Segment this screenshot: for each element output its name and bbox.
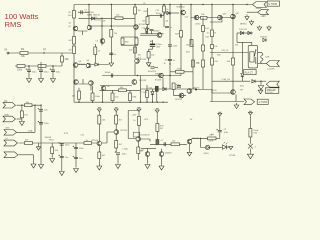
- label R10b: [129, 50, 133, 52]
- svg-text:S.TRIM: S.TRIM: [268, 2, 277, 6]
- resistor R26 feedback: [176, 70, 185, 73]
- svg-text:100u: 100u: [224, 132, 228, 134]
- label C12: [173, 46, 179, 48]
- label C21: [65, 145, 70, 147]
- svg-text:100u: 100u: [32, 72, 38, 74]
- node rail x135: [134, 4, 135, 5]
- svg-text:100u: 100u: [122, 154, 128, 156]
- LED D16b: [222, 142, 227, 149]
- wire q20 emit: [137, 141, 139, 147]
- resistor R6: [73, 37, 76, 45]
- svg-text:100pF: 100pF: [105, 72, 112, 74]
- svg-text:TP: TP: [43, 49, 46, 52]
- label y8: [190, 119, 193, 121]
- wire y26 bias: [92, 25, 136, 27]
- svg-text:100k: 100k: [17, 70, 23, 72]
- ground x111: [109, 60, 114, 67]
- wire vbe top: [121, 36, 138, 38]
- node bus103 x140.5: [140, 102, 141, 103]
- wire q18 emit: [98, 146, 100, 152]
- resistor R33 4k7: [98, 152, 101, 159]
- node bus103 x79: [78, 102, 79, 103]
- wire y22 stub: [210, 20, 222, 22]
- wire y17.5 r2: [191, 17, 233, 19]
- capacitor C10 100u: [149, 65, 154, 68]
- ground top right lower: [258, 89, 263, 94]
- wire chain g2: [219, 133, 221, 139]
- label LOA: [222, 78, 231, 81]
- capacitor C15: [177, 86, 181, 87]
- wire x102 drop: [101, 18, 103, 45]
- connector -42V: [258, 10, 269, 15]
- label C10: [148, 71, 157, 73]
- wire C3 to ground: [52, 72, 54, 78]
- ground x62: [59, 170, 64, 175]
- label y7: [144, 119, 149, 121]
- label R31: [102, 120, 106, 122]
- resistor R30: [146, 91, 149, 98]
- label Q14b: [107, 86, 111, 88]
- label Q1: [68, 26, 72, 28]
- node rail x191: [190, 4, 191, 5]
- resistor R20 10k: [202, 60, 205, 67]
- svg-text:100R: 100R: [176, 87, 181, 89]
- transistor Q7b: [135, 59, 140, 64]
- transistor Q15 TIP3055: [179, 93, 184, 98]
- wire q20 down: [137, 154, 139, 161]
- resistor R23: [211, 45, 214, 49]
- wire zener low: [241, 77, 243, 82]
- label y1: [141, 92, 148, 94]
- wire q9 emitter: [162, 78, 164, 89]
- label R40: [172, 141, 175, 143]
- wire x92.5 stub: [92, 86, 94, 102]
- svg-text:TIP: TIP: [107, 86, 111, 88]
- label C19: [44, 110, 48, 112]
- resistor R17 10k: [201, 16, 208, 19]
- wire x76 chain: [75, 143, 77, 167]
- svg-text:OR_2k: OR_2k: [222, 50, 230, 52]
- wire x233 drop: [232, 5, 234, 95]
- diode D14: [252, 80, 255, 83]
- box title block: [267, 1, 279, 6]
- label R27: [120, 87, 124, 89]
- resistor R35: [115, 141, 118, 149]
- wire x135 drop: [134, 5, 136, 38]
- label R24: [214, 61, 218, 63]
- label LED: [204, 153, 210, 155]
- wire chain b2: [115, 124, 117, 130]
- wire q22 gnd: [147, 156, 149, 163]
- capacitor C14 100p: [111, 74, 112, 78]
- resistor R16c: [190, 40, 193, 47]
- svg-text:R28: R28: [217, 55, 220, 57]
- label R8: [114, 33, 118, 35]
- label y2: [29, 130, 33, 133]
- wire x113 seg: [112, 90, 114, 93]
- capacitor C11b: [148, 28, 153, 31]
- wire y33.8 link: [141, 33, 164, 35]
- label F1: [255, 147, 257, 149]
- label L2: [253, 130, 258, 132]
- resistor R25: [232, 58, 235, 65]
- label R18: [205, 28, 209, 30]
- wire q21 emit: [189, 144, 191, 151]
- resistor R18: [202, 26, 205, 32]
- label y15: [235, 45, 238, 47]
- label C13: [173, 60, 176, 62]
- wire coil top: [258, 52, 262, 63]
- capacitor C16 100u: [115, 151, 120, 154]
- svg-text:100u: 100u: [56, 72, 62, 74]
- node bus1: [137, 75, 138, 76]
- resistor R27 10k: [119, 89, 127, 92]
- resistor R46 240R: [208, 137, 217, 140]
- svg-text:100n/400V: 100n/400V: [140, 135, 150, 137]
- node rail x164: [163, 4, 164, 5]
- label x1: [166, 21, 170, 23]
- svg-text:BC556: BC556: [95, 19, 102, 21]
- ground r43: [19, 120, 24, 126]
- ground supply 2: [249, 20, 253, 25]
- diode D6: [145, 29, 148, 32]
- label y4: [64, 133, 69, 135]
- ground cn5: [31, 163, 36, 169]
- svg-text:MJ350: MJ350: [153, 31, 160, 33]
- resistor R4 47k: [38, 65, 46, 68]
- capacitor C21 100u: [58, 142, 63, 145]
- connector trim: [244, 99, 255, 105]
- wire y144.3 row: [150, 143, 187, 145]
- label R5: [68, 12, 72, 14]
- wire cn5 row: [19, 154, 34, 156]
- label x10: [164, 63, 166, 65]
- resistor R8 15k: [110, 30, 113, 38]
- svg-text:1k: 1k: [214, 33, 216, 35]
- label R11: [125, 42, 129, 44]
- svg-text:LYT08L: LYT08L: [229, 155, 235, 157]
- svg-text:100n: 100n: [165, 60, 169, 62]
- label C11: [170, 27, 172, 29]
- wire x135 mid: [134, 37, 136, 76]
- transistor Q13: [231, 14, 236, 19]
- label R32: [86, 140, 89, 142]
- resistor R37: [137, 147, 140, 154]
- label x3: [196, 24, 202, 26]
- flag V+ h: [248, 111, 252, 117]
- wire c10 link: [155, 67, 159, 69]
- transistor Q4 BC556: [86, 63, 91, 68]
- label TIP 3055: [85, 12, 95, 14]
- svg-text:220R: 220R: [177, 68, 182, 70]
- wire chain g: [219, 118, 221, 130]
- wire x79 stub: [78, 88, 80, 102]
- svg-text:Q1: Q1: [69, 23, 72, 25]
- label R28a: [72, 96, 76, 98]
- capacitor C13: [168, 59, 172, 60]
- node bus103 x152.5: [152, 102, 153, 103]
- node rail x233: [232, 4, 233, 5]
- resistor R10b: [134, 47, 137, 53]
- wire x181 drop: [180, 5, 182, 76]
- label R30c: [176, 87, 181, 89]
- wire C1 drop: [28, 66, 30, 70]
- connector CN5: [4, 152, 18, 158]
- diode D1 1N4148: [91, 17, 94, 20]
- wire -42V feed: [247, 11, 258, 13]
- svg-text:240R: 240R: [209, 141, 214, 143]
- box -2 TRIM: [257, 99, 268, 104]
- label 100n 400V: [140, 135, 150, 137]
- label L2b: [253, 133, 258, 135]
- label Q7: [139, 24, 146, 26]
- label R26: [177, 68, 182, 70]
- diode D7 1N4148: [167, 11, 170, 14]
- label Q9b: [153, 31, 160, 33]
- svg-text:100u/25V: 100u/25V: [148, 71, 157, 73]
- label R14b: [144, 11, 149, 13]
- capacitor C22 10u: [58, 155, 63, 158]
- resistor R44 4k7: [25, 142, 33, 145]
- label Q10: [177, 7, 186, 9]
- transistor Q7: [134, 25, 139, 30]
- resistor R30b 100R: [172, 83, 175, 90]
- diode D11: [248, 31, 251, 34]
- resistor R32 1k: [84, 142, 92, 145]
- wire d8 stubs: [152, 89, 154, 102]
- node B: [28, 65, 29, 66]
- wire y90 seg: [100, 89, 141, 91]
- wire diode row y33: [237, 32, 253, 34]
- wire q18 gnd: [98, 159, 100, 165]
- svg-text:-2 TRIM: -2 TRIM: [258, 101, 267, 104]
- label y11: [103, 21, 106, 23]
- transistor Q14b: [101, 86, 106, 91]
- wire bus y75.5: [102, 75, 181, 77]
- transistor Q20: [136, 137, 141, 142]
- label x8: [214, 46, 217, 48]
- label R5b: [68, 15, 72, 17]
- node cn1c: [40, 105, 41, 106]
- svg-text:(+)SPK: (+)SPK: [268, 69, 276, 71]
- wire led branch: [201, 138, 206, 147]
- node rail x212: [211, 4, 212, 5]
- wire x89 drop: [88, 5, 90, 26]
- transistor Q5 BC546: [74, 80, 79, 85]
- label C24: [79, 158, 83, 160]
- svg-text:BC: BC: [140, 151, 143, 153]
- wire d6 stubs: [147, 27, 152, 34]
- svg-text:RMS: RMS: [5, 20, 22, 29]
- svg-text:CN3: CN3: [5, 128, 10, 130]
- resistor R6b: [73, 46, 76, 54]
- resistor R3 100k: [17, 65, 25, 68]
- svg-text:BC546: BC546: [155, 80, 162, 82]
- wire chain a: [98, 113, 100, 115]
- wire chain b3: [115, 148, 117, 152]
- wire x62 chain: [61, 143, 63, 170]
- transistor Q3 BC546: [73, 63, 78, 68]
- resistor R1 10k: [20, 47, 28, 55]
- svg-text:MJ2955: MJ2955: [187, 45, 194, 47]
- resistor R2 10k: [61, 56, 70, 62]
- capacitor C22 100n: [160, 14, 161, 18]
- power flag 1: [257, 27, 261, 30]
- node q21 coll: [200, 138, 201, 139]
- label R38b: [160, 128, 164, 130]
- svg-text:C31: C31: [81, 134, 84, 136]
- label CN2: [4, 115, 9, 117]
- relay RLA box: [248, 45, 257, 68]
- wire y89 out: [141, 88, 197, 90]
- label x11: [223, 14, 228, 16]
- wire r43 chain: [21, 105, 23, 111]
- capacitor C23 100u: [73, 146, 78, 149]
- resistor R38 4k7: [156, 124, 159, 132]
- wire x131 seg: [129, 90, 131, 93]
- label R20: [196, 63, 200, 65]
- label Q18: [92, 140, 99, 142]
- node y26 x102: [101, 25, 102, 26]
- flag V+ a: [97, 108, 101, 114]
- transistor Q12: [218, 15, 223, 20]
- label R17: [201, 14, 205, 16]
- wire vbe bottom: [121, 44, 138, 46]
- node x170b: [169, 63, 170, 64]
- transistor Q9 BC546: [159, 73, 164, 78]
- label R16: [166, 9, 169, 11]
- transistor Q9b MJE350: [157, 33, 162, 38]
- svg-text:BC546: BC546: [139, 24, 146, 26]
- wire bus y103: [74, 101, 168, 103]
- node bus103 x102.5: [102, 102, 103, 103]
- node bias1: [111, 25, 112, 26]
- svg-text:RLA-ZT: RLA-ZT: [245, 72, 254, 75]
- node rail x203: [202, 4, 203, 5]
- resistor R10 10k: [134, 7, 137, 14]
- wire y139 stub: [140, 139, 150, 142]
- wire x95 drop: [94, 44, 96, 63]
- label y3: [45, 137, 52, 139]
- wire supply arrows top: [260, 26, 270, 28]
- wire loop x35: [17, 105, 36, 132]
- svg-text:10k: 10k: [196, 63, 199, 65]
- ground led: [229, 146, 233, 149]
- wire out right: [196, 90, 231, 94]
- inductor L1: [261, 53, 263, 63]
- resistor R28b 100n: [91, 93, 94, 101]
- label R14: [142, 21, 146, 23]
- ground x52: [50, 157, 55, 162]
- wire fuse low: [249, 149, 251, 153]
- wire x147.5 chain: [147, 8, 149, 34]
- resistor R42 10k: [25, 104, 33, 107]
- label Q19: [121, 130, 128, 132]
- wire y12.2 c7: [78, 11, 89, 13]
- label R36: [133, 120, 136, 122]
- svg-text:10R: 10R: [265, 57, 269, 59]
- wire q18 base: [70, 142, 97, 144]
- node rail x247: [246, 4, 247, 5]
- ground relay area: [258, 84, 263, 89]
- svg-text:22k: 22k: [103, 21, 106, 23]
- resistor R45 10k: [51, 147, 54, 154]
- svg-text:+42V: +42V: [144, 119, 149, 121]
- node A: [43, 52, 44, 53]
- label Q8: [96, 41, 99, 43]
- label x4: [206, 37, 211, 39]
- label R6b: [69, 50, 73, 52]
- wire x41 chain: [40, 105, 42, 163]
- label C16: [122, 154, 128, 156]
- label C18e: [211, 134, 215, 136]
- resistor R22 1k: [211, 30, 214, 37]
- resistor R31 dark: [155, 86, 158, 91]
- wire y18.3 link: [79, 17, 136, 19]
- resistor R12: [135, 38, 138, 45]
- ground C3: [51, 77, 56, 83]
- transistor Q17 out: [231, 90, 236, 95]
- wire y64 link2: [91, 64, 109, 66]
- diode D16: [163, 87, 166, 90]
- capacitor C6 1n: [109, 53, 113, 54]
- label y13: [187, 45, 194, 47]
- label Q23: [165, 153, 173, 155]
- capacitor C17: [164, 142, 165, 146]
- label R30b: [176, 85, 181, 87]
- label CN3: [5, 128, 10, 130]
- wire mirror link: [79, 79, 92, 91]
- wire +42V top rail: [74, 4, 252, 6]
- capacitor C1 100u: [26, 68, 31, 71]
- label C2: [44, 72, 50, 74]
- resistor R31: [98, 115, 101, 124]
- resistor R28a: [78, 91, 81, 99]
- label R9 22k: [116, 15, 120, 17]
- ground q21: [187, 151, 192, 156]
- wire chain d2: [156, 132, 158, 140]
- svg-text:C 1u0F: C 1u0F: [141, 92, 148, 94]
- flag V+ b: [114, 108, 118, 114]
- node bus103 x130: [129, 102, 130, 103]
- svg-text:BC546: BC546: [92, 140, 99, 142]
- label 10k R1: [21, 55, 26, 58]
- ground x76: [74, 168, 79, 173]
- resistor R39 dark: [156, 140, 159, 145]
- wire led gnd: [227, 146, 230, 148]
- label R44: [25, 139, 29, 141]
- box q20 corner: [133, 132, 140, 137]
- svg-text:10k: 10k: [214, 46, 217, 48]
- wire chain c2: [138, 125, 140, 136]
- input terminal: [7, 52, 9, 54]
- capacitor C18b 100u: [216, 129, 221, 132]
- wire x170 main drop: [169, 5, 171, 90]
- transistor Q8: [100, 39, 105, 44]
- node bus103 x112.5: [112, 102, 113, 103]
- resistor R15 10k: [147, 52, 150, 59]
- transistor Q18 BC546: [97, 141, 102, 146]
- label C22b: [156, 13, 161, 15]
- wire x111 drop: [110, 5, 112, 60]
- svg-text:10k: 10k: [172, 141, 175, 143]
- label Q4: [87, 60, 91, 62]
- svg-text:BC556: BC556: [121, 130, 128, 132]
- wire R2 to lower: [61, 62, 63, 66]
- transistor Q6: [89, 81, 94, 86]
- node y18 x102: [101, 18, 102, 19]
- label Q21: [193, 138, 200, 140]
